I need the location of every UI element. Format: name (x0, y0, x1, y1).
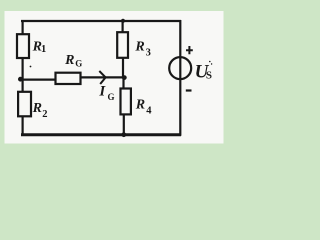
svg-text:R: R (135, 97, 145, 112)
svg-text:R: R (64, 53, 74, 68)
svg-text:4: 4 (146, 106, 152, 117)
svg-text:G: G (75, 58, 82, 68)
svg-text:2: 2 (42, 109, 47, 120)
svg-text:G: G (108, 92, 115, 102)
svg-text:I: I (98, 83, 106, 99)
svg-text:1: 1 (41, 44, 46, 55)
svg-text:R: R (134, 39, 144, 54)
svg-text:S: S (206, 69, 212, 81)
svg-text:3: 3 (146, 48, 151, 59)
svg-text:R: R (32, 101, 42, 116)
